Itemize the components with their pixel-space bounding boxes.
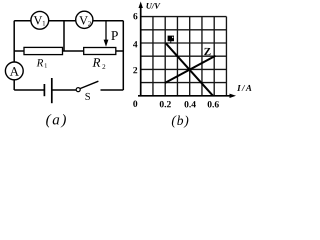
svg-text:R: R [36,57,44,69]
svg-text:(a): (a) [46,112,68,128]
svg-text:0: 0 [133,100,138,110]
svg-text:6: 6 [133,12,138,22]
svg-text:V: V [79,13,88,27]
svg-text:I/A: I/A [236,83,253,93]
svg-text:V: V [33,13,42,27]
svg-text:U/V: U/V [146,1,162,11]
svg-text:S: S [85,92,91,103]
svg-text:R: R [91,55,100,70]
svg-text:2: 2 [102,63,106,71]
svg-text:P: P [111,28,119,43]
svg-text:1: 1 [42,19,46,27]
svg-text:1: 1 [44,63,47,70]
svg-text:(b): (b) [171,113,189,128]
svg-text:Z: Z [204,46,211,58]
svg-text:2: 2 [88,20,92,28]
svg-text:0.4: 0.4 [184,100,196,110]
svg-text:2: 2 [133,66,138,76]
svg-text:0.2: 0.2 [159,100,171,110]
svg-text:4: 4 [133,40,138,50]
svg-text:A: A [10,64,20,79]
svg-text:0.6: 0.6 [207,100,219,110]
